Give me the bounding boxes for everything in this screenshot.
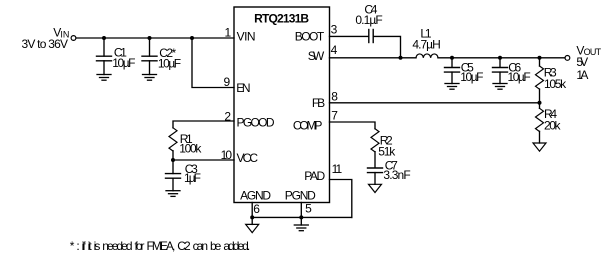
svg-text:8: 8 xyxy=(331,89,338,103)
wire pin 8 FB xyxy=(330,102,540,104)
resistor R1 xyxy=(169,128,177,160)
svg-text:COMP: COMP xyxy=(293,118,323,132)
wire EN branch to pin 9 xyxy=(192,38,234,88)
ground under C1 xyxy=(97,75,111,81)
node junction R3 xyxy=(538,56,542,60)
svg-text:SW: SW xyxy=(308,49,325,63)
capacitor C5 xyxy=(445,58,460,84)
wire ground bus AGND-PGND-PAD xyxy=(252,216,352,218)
node junction PGND/bus xyxy=(299,215,303,219)
node junction AGND/bus xyxy=(250,215,254,219)
ground under R4 (triangle) xyxy=(533,143,546,151)
capacitor C6 xyxy=(493,58,508,84)
node junction C1 xyxy=(102,36,106,40)
svg-text:10µF: 10µF xyxy=(112,56,135,70)
svg-text:0.1µF: 0.1µF xyxy=(355,13,382,27)
svg-text:6: 6 xyxy=(253,202,260,216)
svg-text:VCC: VCC xyxy=(237,151,259,165)
svg-text:20k: 20k xyxy=(544,119,562,133)
node junction C5 xyxy=(450,56,454,60)
ground under C6 xyxy=(493,84,507,90)
svg-text:PGND: PGND xyxy=(285,188,316,202)
svg-text:10: 10 xyxy=(221,148,233,162)
svg-text:4: 4 xyxy=(331,43,338,57)
node junction C2 xyxy=(148,36,152,40)
IC U1 RTQ2131B body xyxy=(234,7,330,203)
svg-text:10µF: 10µF xyxy=(508,70,531,84)
resistor R4 xyxy=(536,103,544,143)
wire VIN terminal to pin 1 xyxy=(76,37,234,39)
svg-text:3: 3 xyxy=(331,23,338,37)
svg-text:105k: 105k xyxy=(544,77,567,91)
capacitor C7 xyxy=(368,168,383,184)
svg-text:PAD: PAD xyxy=(304,169,325,183)
svg-text:RTQ2131B: RTQ2131B xyxy=(254,12,309,26)
capacitor C2 xyxy=(142,38,157,75)
wire C4 to SW node xyxy=(373,36,400,57)
svg-text:FB: FB xyxy=(312,96,325,110)
wire pin 4 SW to L1 xyxy=(330,57,417,59)
node VIN input terminal xyxy=(71,36,76,41)
svg-text:1A: 1A xyxy=(576,68,588,82)
svg-text:PGOOD: PGOOD xyxy=(237,115,275,129)
svg-text:51k: 51k xyxy=(378,144,396,158)
svg-text:5: 5 xyxy=(305,202,312,216)
wire L1 to VOUT terminal xyxy=(438,57,565,59)
svg-text:1: 1 xyxy=(225,26,232,40)
node VOUT output terminal xyxy=(565,56,570,61)
svg-text:10µF: 10µF xyxy=(460,70,483,84)
svg-text:* : if it is needed for FMEA,: * : if it is needed for FMEA, C2 can be … xyxy=(70,239,251,253)
capacitor C1 xyxy=(97,38,112,75)
wire pin 2 PGOOD to R1 xyxy=(173,121,234,128)
wire pin 7 COMP to R2 xyxy=(330,122,376,129)
node junction R1/C3/VCC xyxy=(171,158,175,162)
wire pin 11 PAD down to ground bus xyxy=(330,180,352,218)
capacitor C3 xyxy=(166,160,181,191)
svg-text:1µF: 1µF xyxy=(184,171,201,185)
ground AGND (triangle) xyxy=(246,224,259,232)
svg-text:2: 2 xyxy=(224,109,231,123)
svg-text:7: 7 xyxy=(331,108,338,122)
svg-text:10µF: 10µF xyxy=(158,57,181,71)
inductor L1 xyxy=(416,54,438,58)
node junction EN branch xyxy=(190,36,194,40)
ground under C3 xyxy=(166,191,180,197)
ground under C2 xyxy=(143,75,157,81)
node junction C4/SW xyxy=(399,56,403,60)
resistor R3 xyxy=(536,58,544,103)
wire pin 6 AGND xyxy=(251,203,253,225)
svg-text:9: 9 xyxy=(224,75,231,89)
svg-text:3.3nF: 3.3nF xyxy=(383,168,410,182)
svg-text:BOOT: BOOT xyxy=(295,30,325,44)
wire VCC pin 10 xyxy=(173,159,234,161)
svg-text:11: 11 xyxy=(332,162,343,176)
resistor R2 xyxy=(371,129,379,168)
ground under C7 (triangle) xyxy=(369,184,382,192)
svg-text:4.7µH: 4.7µH xyxy=(412,38,440,52)
ground under PGND xyxy=(294,225,308,231)
svg-text:5V: 5V xyxy=(576,55,588,69)
svg-text:EN: EN xyxy=(236,81,250,95)
svg-text:VIN: VIN xyxy=(237,30,256,44)
wire pin 5 PGND xyxy=(300,203,302,226)
node junction FB/R3/R4 xyxy=(538,101,542,105)
svg-text:100k: 100k xyxy=(179,142,202,156)
capacitor C4 xyxy=(369,30,373,43)
node junction C6 xyxy=(498,56,502,60)
svg-text:AGND: AGND xyxy=(240,188,271,202)
ground under C5 xyxy=(445,84,459,90)
wire pin 3 BOOT to C4 xyxy=(330,35,369,37)
svg-text:3V to 36V: 3V to 36V xyxy=(22,37,69,51)
